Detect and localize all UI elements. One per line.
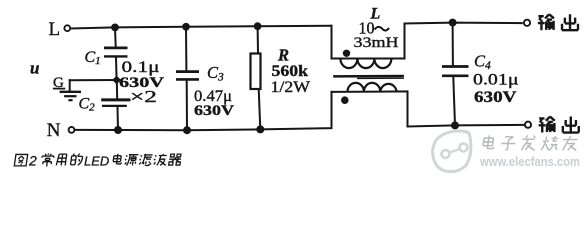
svg-text:R: R bbox=[277, 46, 289, 65]
svg-text:2: 2 bbox=[28, 153, 37, 169]
svg-text:LED: LED bbox=[84, 154, 109, 169]
svg-text:33mH: 33mH bbox=[354, 35, 399, 51]
svg-text:www.elecfans.com: www.elecfans.com bbox=[479, 154, 580, 169]
svg-text:630V: 630V bbox=[194, 103, 234, 119]
svg-text:C1: C1 bbox=[85, 49, 101, 67]
svg-text:×2: ×2 bbox=[130, 87, 157, 106]
svg-text:C4: C4 bbox=[474, 51, 491, 72]
svg-text:C3: C3 bbox=[207, 63, 224, 84]
svg-text:630V: 630V bbox=[474, 89, 517, 106]
svg-text:u: u bbox=[30, 59, 39, 78]
svg-text:0.01μ: 0.01μ bbox=[473, 71, 519, 88]
svg-text:N: N bbox=[47, 120, 61, 141]
svg-text:L: L bbox=[49, 19, 61, 40]
svg-text:560k: 560k bbox=[272, 63, 309, 80]
svg-text:1/2W: 1/2W bbox=[271, 79, 311, 96]
svg-text:G: G bbox=[53, 75, 64, 91]
svg-text:0.1μ: 0.1μ bbox=[122, 59, 160, 76]
svg-text:C2: C2 bbox=[79, 96, 96, 114]
